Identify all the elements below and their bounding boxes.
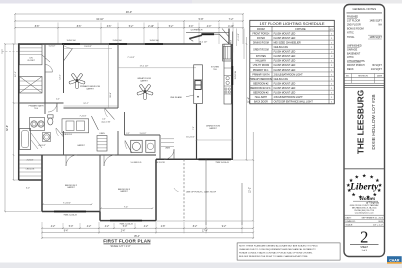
svg-text:12'-7": 12'-7" [83, 103, 89, 105]
svg-text:7'-2": 7'-2" [229, 18, 234, 21]
svg-text:5-0 BI-FOLD: 5-0 BI-FOLD [62, 134, 73, 136]
svg-text:17'-4": 17'-4" [202, 231, 208, 233]
svg-text:BEDROOM #2 W.C.: BEDROOM #2 W.C. [251, 88, 272, 90]
svg-text:BUILDER RESERVES THE RIGHT TO: BUILDER RESERVES THE RIGHT TO MAKE CHANG… [239, 255, 308, 258]
svg-text:16'-8": 16'-8" [110, 92, 112, 98]
svg-text:4'-2": 4'-2" [87, 226, 92, 228]
svg-text:36 SQFT: 36 SQFT [372, 64, 382, 67]
svg-text:NA: NA [378, 24, 382, 27]
svg-text:ATTIC: ATTIC [347, 32, 354, 35]
svg-text:46'-0": 46'-0" [126, 11, 132, 14]
svg-text:2-050 SH: 2-050 SH [113, 40, 122, 42]
svg-text:SEPTEMBER 21, 2023: SEPTEMBER 21, 2023 [362, 218, 384, 220]
svg-text:HALLWAY: HALLWAY [256, 60, 267, 63]
svg-text:SCALE: 1/4" = 1'-0": SCALE: 1/4" = 1'-0" [111, 245, 131, 248]
svg-text:TOTAL: TOTAL [347, 36, 355, 39]
svg-text:7'-4 1/2": 7'-4 1/2" [63, 202, 71, 204]
svg-text:BLW: BLW [379, 221, 383, 223]
svg-text:9'-4": 9'-4" [64, 231, 69, 233]
svg-text:TWN 2-026+B: TWN 2-026+B [63, 215, 77, 217]
svg-text:FLUSH MOUNT LED: FLUSH MOUNT LED [274, 93, 296, 95]
svg-text:DATE: DATE [377, 74, 383, 77]
svg-text:CLOSET: CLOSET [27, 60, 35, 62]
svg-text:ROOM: ROOM [257, 28, 264, 31]
svg-text:PRIMARY BATH: PRIMARY BATH [252, 73, 269, 76]
svg-text:NOTE: THESE PLANS ARE DEEMED A: NOTE: THESE PLANS ARE DEEMED ACCURATE BU… [239, 244, 318, 247]
svg-text:CEILING FAN: CEILING FAN [274, 78, 289, 81]
svg-text:HALL BATH: HALL BATH [255, 96, 268, 99]
svg-text:3-0 DOOR: 3-0 DOOR [155, 162, 165, 164]
svg-text:9'-2": 9'-2" [222, 226, 227, 228]
svg-text:5'-0": 5'-0" [123, 226, 128, 228]
svg-text:FLUSH MOUNT LED: FLUSH MOUNT LED [274, 56, 296, 58]
svg-text:BEDROOM #3: BEDROOM #3 [253, 93, 269, 95]
svg-text:12'-2": 12'-2" [249, 187, 252, 193]
svg-text:FLUSH MOUNT LED: FLUSH MOUNT LED [274, 88, 296, 90]
svg-text:FIRST FLOOR PLAN: FIRST FLOOR PLAN [103, 239, 151, 244]
svg-text:CEILING FAN: CEILING FAN [274, 46, 289, 49]
svg-text:UNFINISHED: UNFINISHED [347, 45, 362, 48]
svg-text:4'-8 1/2": 4'-8 1/2" [38, 145, 46, 147]
svg-text:12'-1": 12'-1" [15, 71, 17, 77]
svg-text:LIN CLOS: LIN CLOS [26, 169, 35, 171]
svg-text:4'-0": 4'-0" [207, 26, 212, 28]
svg-text:LINE OF PORCH + CANT. ROOF: LINE OF PORCH + CANT. ROOF [186, 190, 217, 193]
svg-text:5'-2": 5'-2" [169, 26, 174, 28]
svg-text:35'-4": 35'-4" [134, 236, 140, 238]
svg-text:FLUSH MOUNT LED: FLUSH MOUNT LED [274, 65, 296, 67]
svg-text:16'-2 1/2": 16'-2 1/2" [199, 42, 208, 44]
svg-text:3'-0": 3'-0" [26, 188, 30, 190]
svg-text:LINEN: LINEN [165, 148, 171, 150]
svg-text:5-0 BIFOLD: 5-0 BIFOLD [131, 162, 142, 164]
svg-text:FRONT PORCH: FRONT PORCH [252, 33, 269, 35]
svg-text:5'-8": 5'-8" [199, 18, 204, 21]
svg-text:KITCHEN: KITCHEN [256, 56, 266, 58]
svg-text:FRONT PORCH: FRONT PORCH [347, 64, 365, 67]
svg-text:BONUS ROOM: BONUS ROOM [347, 28, 364, 31]
svg-text:9'-8 1/2": 9'-8 1/2" [84, 46, 92, 48]
svg-text:PRIMARY BEDROOM: PRIMARY BEDROOM [249, 78, 272, 81]
svg-text:34'-10": 34'-10" [96, 18, 104, 21]
svg-text:FIXTURE: FIXTURE [295, 28, 306, 31]
svg-text:7'-6": 7'-6" [193, 126, 195, 130]
svg-text:LINEN: LINEN [99, 133, 105, 135]
svg-text:CARPET: CARPET [140, 80, 149, 83]
svg-text:7'-4 1/2": 7'-4 1/2" [80, 115, 87, 117]
svg-text:4'-2": 4'-2" [105, 226, 110, 228]
svg-text:MID SIZED CHANDELIER: MID SIZED CHANDELIER [274, 41, 301, 44]
svg-text:3'-0": 3'-0" [189, 26, 194, 28]
svg-text:16'-4 1/2": 16'-4 1/2" [186, 137, 195, 139]
svg-text:5'-2": 5'-2" [129, 26, 134, 28]
svg-text:DATE:: DATE: [346, 217, 352, 220]
svg-text:OUTDOOR ENTRANCE WALL LIGHT: OUTDOOR ENTRANCE WALL LIGHT [274, 101, 314, 104]
svg-text:CARPET: CARPET [77, 144, 86, 147]
svg-text:1ST FLOOR: 1ST FLOOR [347, 20, 361, 23]
svg-text:CAAR: CAAR [389, 258, 400, 262]
svg-text:5'-8 1/2": 5'-8 1/2" [49, 46, 56, 48]
svg-text:4'-1 1/2": 4'-1 1/2" [238, 33, 240, 41]
svg-text:3'-6": 3'-6" [107, 26, 112, 28]
svg-text:2'-8": 2'-8" [161, 226, 166, 228]
svg-text:FINISHED: FINISHED [347, 16, 358, 19]
svg-text:FOYER: FOYER [257, 38, 265, 40]
svg-text:of Virginia: of Virginia [366, 201, 380, 205]
svg-text:2'-8 1/2": 2'-8 1/2" [27, 160, 34, 162]
svg-text:Liberty: Liberty [349, 182, 379, 193]
svg-text:TWN 3-054+B: TWN 3-054+B [215, 162, 229, 164]
svg-text:5/4 FRENCH: 5/4 FRENCH [191, 30, 203, 32]
svg-text:FLUSH MOUNT LED: FLUSH MOUNT LED [274, 33, 296, 35]
svg-text:144 SQFT: 144 SQFT [371, 68, 383, 71]
svg-text:2'-10": 2'-10" [148, 26, 154, 28]
svg-text:ONE ISLAND: ONE ISLAND [170, 96, 183, 99]
svg-text:GREAT ROOM: GREAT ROOM [253, 48, 269, 51]
svg-text:7'-1 1/2": 7'-1 1/2" [127, 57, 135, 59]
svg-text:UTILITY ROOM: UTILITY ROOM [253, 65, 269, 67]
svg-text:GARAGE: GARAGE [347, 49, 358, 52]
svg-text:1 of 5: 1 of 5 [361, 250, 367, 252]
svg-text:1/4" = 1'-0": 1/4" = 1'-0" [373, 224, 383, 226]
svg-text:TWN 2-026+B: TWN 2-026+B [119, 224, 133, 226]
svg-text:ATTIC: ATTIC [347, 56, 354, 59]
svg-text:BEDROOM #2: BEDROOM #2 [253, 83, 269, 85]
svg-text:BACK DOOR: BACK DOOR [254, 101, 268, 104]
svg-text:4'-0": 4'-0" [56, 99, 60, 101]
svg-text:FLUSH MOUNT LED: FLUSH MOUNT LED [274, 83, 296, 85]
svg-text:31'-4": 31'-4" [247, 97, 250, 103]
svg-text:FLUSH MOUNT LED: FLUSH MOUNT LED [274, 70, 296, 72]
svg-text:www.libertyhomes.com: www.libertyhomes.com [355, 211, 374, 214]
svg-text:REVISION: REVISION [358, 75, 368, 77]
svg-text:2ND FLOOR: 2ND FLOOR [347, 24, 361, 27]
svg-text:ATTACHMENTS: ATTACHMENTS [347, 60, 365, 63]
svg-text:2: 2 [360, 228, 368, 247]
svg-text:14'-0": 14'-0" [60, 74, 62, 79]
svg-text:CARPET: CARPET [67, 186, 76, 189]
svg-text:5'-0": 5'-0" [69, 226, 74, 228]
svg-text:(2)-2'-1 3/4": (2)-2'-1 3/4" [102, 122, 111, 124]
svg-text:2 BULB BATHROOM LIGHT: 2 BULB BATHROOM LIGHT [274, 73, 304, 76]
svg-text:DRAW BY:: DRAW BY: [346, 220, 357, 223]
svg-text:DINING ROOM: DINING ROOM [253, 42, 269, 44]
svg-text:CHANGES DUE TO CODE REQUIREMEN: CHANGES DUE TO CODE REQUIREMENTS AND MEC… [239, 248, 316, 251]
svg-text:1485 SQFT: 1485 SQFT [369, 36, 382, 39]
svg-text:DIXIE HOLLOW LOT #2B: DIXIE HOLLOW LOT #2B [371, 94, 377, 149]
svg-text:8'-8": 8'-8" [35, 26, 40, 28]
svg-text:4'-2": 4'-2" [51, 226, 56, 228]
svg-text:FLUSH MOUNT LED: FLUSH MOUNT LED [274, 61, 296, 63]
svg-text:PRIMARY W.C.: PRIMARY W.C. [253, 69, 269, 72]
svg-text:2'-4": 2'-4" [102, 119, 106, 121]
svg-text:GENERAL NOTES: GENERAL NOTES [352, 7, 376, 11]
svg-text:DECK: DECK [347, 68, 354, 71]
svg-text:SHEET: SHEET [360, 247, 368, 249]
svg-text:8'-6": 8'-6" [77, 26, 82, 28]
svg-text:17'-1 1/2": 17'-1 1/2" [140, 65, 149, 67]
svg-text:32'-6": 32'-6" [6, 125, 9, 131]
svg-text:NO.: NO. [346, 75, 350, 77]
svg-text:CARPET: CARPET [120, 190, 129, 193]
svg-text:2 BULB BATHROOM LIGHT: 2 BULB BATHROOM LIGHT [274, 96, 304, 99]
svg-text:PLEASE CONSULT SALES CONTRACT: PLEASE CONSULT SALES CONTRACT FOR ACTUAL… [239, 252, 313, 255]
svg-text:CARPET: CARPET [86, 87, 95, 90]
svg-text:1ST FLOOR LIGHTING SCHEDULE: 1ST FLOOR LIGHTING SCHEDULE [260, 21, 325, 26]
svg-text:2-050 SH: 2-050 SH [235, 70, 237, 79]
svg-text:CARPET: CARPET [209, 127, 218, 130]
svg-text:4'-2": 4'-2" [144, 226, 149, 228]
svg-text:FLUSH MOUNT LED: FLUSH MOUNT LED [274, 52, 296, 54]
svg-text:5'-8 1/2": 5'-8 1/2" [140, 133, 147, 135]
svg-text:3-050 SH: 3-050 SH [150, 40, 159, 42]
svg-text:4'-10": 4'-10" [228, 26, 234, 28]
svg-text:7'-4": 7'-4" [124, 206, 129, 208]
svg-text:3-050 SH: 3-050 SH [67, 40, 76, 42]
svg-text:2'-4": 2'-4" [121, 231, 126, 233]
svg-text:THE LEESBURG: THE LEESBURG [357, 90, 366, 154]
svg-text:SCALE:: SCALE: [346, 223, 354, 226]
svg-text:1485 SQFT: 1485 SQFT [369, 20, 382, 23]
svg-text:FLUSH MOUNT LED: FLUSH MOUNT LED [274, 38, 296, 40]
svg-text:8'-2": 8'-2" [193, 226, 198, 228]
svg-text:2'-2": 2'-2" [126, 133, 130, 135]
